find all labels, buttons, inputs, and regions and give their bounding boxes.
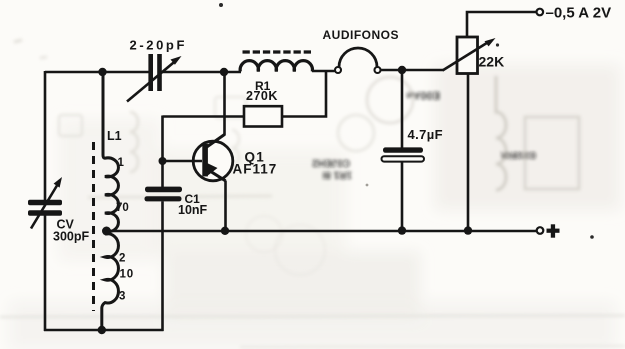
capacitor 4.7uF (electrolytic)	[382, 147, 425, 161]
svg-text:C0JEH2: C0JEH2	[312, 157, 350, 168]
wire: C1 bottom vertical to bottom rail	[161, 201, 164, 331]
svg-text:300pF: 300pF	[53, 230, 89, 244]
svg-text:1: 1	[118, 157, 125, 169]
wire: 22K bottom vertical	[467, 74, 470, 232]
node: 4.7uF rail dot	[398, 226, 406, 234]
wire: emitter vertical	[224, 181, 227, 232]
svg-text:22K: 22K	[479, 54, 505, 70]
inductor L1 (tapped coil)	[102, 72, 119, 330]
svg-text:–0,5 A 2V: –0,5 A 2V	[546, 5, 612, 22]
wire: left vertical rail	[44, 71, 47, 331]
trimmer capacitor 2-20pF	[127, 54, 182, 102]
node: 22K rail dot	[464, 226, 472, 234]
ghost bleed-through background (decorative)	[10, 65, 620, 349]
node: junction dot at L1 top	[98, 68, 106, 76]
inductor: headphone choke coil	[240, 61, 312, 72]
wire: R1 left vertical + C1 top stem	[161, 116, 164, 188]
svg-text:10nF: 10nF	[178, 203, 208, 217]
svg-text:270K: 270K	[246, 89, 278, 103]
svg-text:10: 10	[120, 269, 134, 281]
wire: bottom rail	[44, 329, 164, 332]
node: collector junction dot	[220, 68, 228, 76]
svg-text:AUDIFONOS: AUDIFONOS	[323, 28, 400, 42]
terminal: positive supply	[537, 227, 544, 234]
specks (decorative)	[219, 3, 223, 7]
svg-text:03S9\0t: 03S9\0t	[500, 149, 536, 160]
node: base junction dot	[159, 157, 167, 165]
label +	[547, 224, 560, 237]
svg-text:1R1 8I: 1R1 8I	[322, 169, 352, 180]
choke core (dashed)	[243, 50, 314, 53]
wire: base horizontal	[163, 160, 203, 163]
wire: top-left horizontal rail	[45, 71, 149, 74]
wire: 22K top to supply terminal	[467, 12, 537, 37]
svg-text:2-20pF: 2-20pF	[130, 38, 188, 53]
node: L1 bottom junction dot	[98, 326, 106, 334]
node: L1 tap junction dot	[102, 227, 111, 236]
svg-text:E00Ae: E00Ae	[406, 89, 440, 101]
capacitor C1 10nF	[145, 187, 183, 202]
terminal: negative supply	[537, 9, 544, 16]
wire: 4.7uF bottom vertical	[401, 162, 404, 232]
wire: 4.7uF top vertical	[401, 70, 404, 148]
svg-text:3: 3	[119, 291, 125, 303]
transistor Q1 AF117 (PNP)	[193, 135, 233, 181]
wire: emitter/common rail	[107, 230, 538, 233]
potentiometer 22K	[443, 37, 496, 74]
label CV 300pF	[53, 218, 89, 244]
svg-text:2: 2	[119, 253, 125, 265]
wire: trimmer to collector node	[162, 71, 241, 74]
capacitor CV 300pF (variable)	[28, 177, 62, 229]
wire: collector vertical	[223, 72, 226, 136]
headphones AUDIFONOS	[335, 48, 381, 73]
node: junction dot at 4.7uF top	[398, 66, 406, 74]
svg-text:70: 70	[116, 202, 129, 214]
wire: headphones to pot wiper	[381, 69, 444, 72]
svg-text:L1: L1	[107, 129, 122, 143]
wire: choke to headphone jack	[312, 70, 335, 73]
L1 core (dashed)	[92, 142, 95, 311]
node: emitter rail dot	[221, 227, 229, 235]
resistor R1 270K	[163, 72, 327, 127]
svg-text:4.7µF: 4.7µF	[408, 127, 444, 142]
svg-text:AF117: AF117	[233, 162, 278, 177]
